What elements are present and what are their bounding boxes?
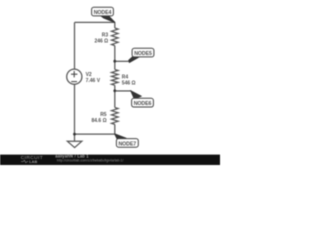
V2 minus sign bbox=[71, 81, 77, 83]
junction node A (NODE5 point) bbox=[113, 60, 116, 63]
node flag NODE6 wedge bbox=[115, 90, 132, 92]
svg-text:84.6 Ω: 84.6 Ω bbox=[91, 118, 106, 124]
ground stem bbox=[74, 134, 76, 141]
svg-text:546 Ω: 546 Ω bbox=[122, 80, 136, 86]
wire left rail lower bbox=[74, 84, 76, 134]
voltage source V2 bbox=[67, 69, 82, 84]
node flag NODE6 bbox=[132, 98, 154, 107]
node flag NODE7 wedge bbox=[115, 134, 126, 139]
wire right rail seg1 bbox=[114, 22, 116, 28]
V2 plus sign bbox=[71, 71, 77, 82]
svg-text:NODE6: NODE6 bbox=[134, 101, 152, 107]
resistor R5 bbox=[112, 108, 119, 125]
wire left rail upper bbox=[74, 22, 76, 69]
wire bottom horizontal bbox=[75, 133, 115, 135]
node flag NODE5 wedge bbox=[115, 60, 132, 62]
svg-text:246 Ω: 246 Ω bbox=[94, 39, 108, 45]
junction node B (NODE6 point) bbox=[113, 89, 116, 92]
node flag NODE5 bbox=[132, 48, 154, 57]
footer logo waveform bbox=[21, 160, 28, 163]
node flag NODE4 bbox=[92, 7, 114, 16]
resistor R3 bbox=[112, 28, 119, 46]
wire right rail seg3 bbox=[114, 85, 116, 107]
wire top horizontal bbox=[75, 21, 115, 23]
node flag NODE7 bbox=[116, 139, 138, 148]
svg-text:NODE4: NODE4 bbox=[94, 10, 112, 16]
svg-text:http://circuitlab.com/c/z9wba6: http://circuitlab.com/c/z9wba6u9gx4a/lab… bbox=[57, 158, 124, 162]
svg-text:LAB: LAB bbox=[29, 160, 37, 164]
svg-text:7.46 V: 7.46 V bbox=[86, 78, 101, 84]
ground triangle bbox=[67, 141, 81, 147]
wire right rail seg4 bbox=[114, 124, 116, 134]
svg-text:NODE5: NODE5 bbox=[134, 51, 152, 57]
junction node C (ground point) bbox=[73, 133, 76, 136]
node flag NODE4 wedge bbox=[101, 16, 115, 23]
svg-text:NODE7: NODE7 bbox=[118, 141, 136, 147]
resistor R4 bbox=[112, 70, 119, 86]
wire right rail seg2 bbox=[114, 46, 116, 70]
footer bar bbox=[0, 155, 220, 165]
